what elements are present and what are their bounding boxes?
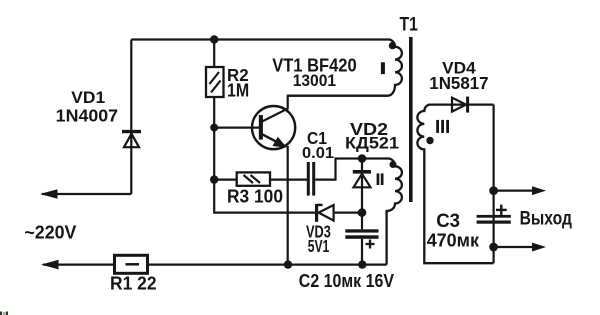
svg-text:VD1: VD1 (71, 89, 105, 107)
transformer winding II (362, 159, 402, 265)
label winding III (436, 120, 449, 133)
resistor R1 (115, 255, 148, 273)
arrow output upper (532, 186, 546, 195)
arrow AC lower (41, 260, 59, 270)
arrow AC upper (40, 189, 58, 199)
label winding I (381, 62, 385, 74)
svg-text:1N5817: 1N5817 (429, 73, 488, 93)
svg-text:~220V: ~220V (24, 222, 77, 243)
resistor R3 (237, 172, 270, 185)
node R3 left (210, 175, 218, 183)
svg-text:T1: T1 (400, 14, 418, 36)
transformer core (409, 37, 413, 202)
wire collector (262, 96, 388, 122)
wire bottom rail left of R1 (43, 264, 116, 266)
wire output lower arrow line (494, 246, 533, 248)
wire AC upper lead (42, 193, 131, 195)
wire output upper arrow line (494, 190, 533, 192)
svg-text:R3 100: R3 100 (227, 186, 283, 207)
label winding II (377, 173, 384, 185)
zener VD3 (317, 204, 334, 222)
node base (210, 124, 218, 132)
capacitor C2 (345, 229, 378, 239)
wire C2 bottom lead (361, 239, 363, 265)
transformer winding III (417, 105, 493, 264)
diode VD1 (122, 132, 141, 148)
capacitor C1 (307, 162, 315, 196)
node output lower (489, 243, 498, 252)
node output upper (489, 186, 498, 195)
wire node to R3 (214, 179, 237, 181)
svg-text:Выход: Выход (520, 208, 572, 229)
svg-text:0.01: 0.01 (302, 145, 334, 162)
node C2 rail (358, 260, 366, 268)
transistor VT1 (252, 106, 295, 149)
svg-text:5V1: 5V1 (308, 236, 330, 256)
svg-text:C2 10мк 16V: C2 10мк 16V (299, 270, 395, 291)
plus sign C2 (366, 240, 375, 249)
wire left vertical mains branch (130, 40, 132, 195)
plus sign C3 (496, 205, 507, 216)
transformer winding I (288, 40, 402, 96)
svg-text:R1 22: R1 22 (110, 274, 157, 294)
svg-text:C3: C3 (436, 211, 460, 232)
resistor R2 (206, 67, 224, 97)
wire C1 to VD2 top node (315, 159, 358, 180)
diode VD4 (452, 97, 468, 113)
wire R2 branch vertical (214, 40, 315, 213)
capacitor C3 (477, 215, 511, 224)
winding II polarity dot (390, 161, 397, 168)
node top rail R2 (210, 35, 218, 43)
node emitter rail (284, 260, 292, 268)
svg-text:1N4007: 1N4007 (56, 105, 118, 125)
winding I polarity dot (389, 42, 396, 49)
wire R3 to C1 (270, 179, 307, 181)
svg-text:КД521: КД521 (345, 134, 399, 153)
svg-text:470мк: 470мк (427, 231, 480, 251)
node VD2 top (358, 154, 367, 163)
svg-text:1M: 1M (227, 81, 249, 101)
wire base horizontal (214, 126, 259, 128)
diode VD2 (353, 172, 371, 188)
wire emitter vertical (287, 146, 289, 265)
wire top rail (131, 38, 390, 40)
wire VD3 to C2 node (334, 212, 362, 214)
wire VD2 vertical (361, 159, 363, 230)
arrow output lower (532, 243, 546, 252)
winding III polarity dot (426, 137, 433, 144)
node VD2 bottom (358, 208, 367, 217)
scan speck bottom left (0, 312, 8, 315)
svg-text:13001: 13001 (293, 72, 336, 90)
wire output vertical (493, 105, 495, 264)
wire bottom rail right of R1 (146, 264, 387, 266)
